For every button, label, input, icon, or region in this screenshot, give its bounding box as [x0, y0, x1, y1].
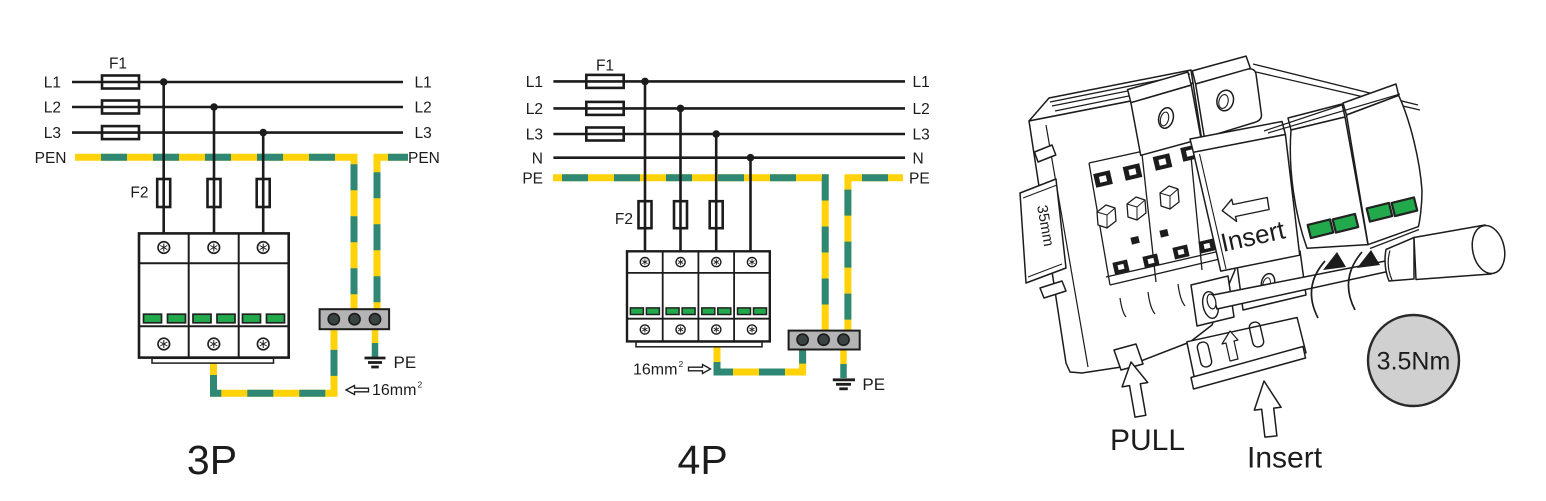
svg-text:L3: L3: [526, 127, 543, 144]
svg-text:16mm: 16mm: [633, 362, 677, 379]
svg-text:L3: L3: [44, 125, 61, 142]
svg-text:L2: L2: [526, 101, 543, 118]
svg-text:3.5Nm: 3.5Nm: [1377, 348, 1451, 376]
svg-text:16mm: 16mm: [372, 382, 416, 399]
svg-text:4P: 4P: [678, 437, 728, 483]
svg-text:L2: L2: [913, 101, 930, 118]
svg-text:2: 2: [418, 380, 423, 390]
svg-text:F1: F1: [596, 57, 614, 74]
svg-text:L1: L1: [415, 75, 432, 92]
svg-text:PEN: PEN: [35, 150, 67, 167]
svg-text:PULL: PULL: [1110, 424, 1185, 457]
svg-text:L2: L2: [415, 100, 432, 117]
svg-text:L1: L1: [526, 74, 543, 91]
svg-text:PE: PE: [862, 375, 885, 394]
svg-text:2: 2: [679, 359, 684, 369]
svg-text:L1: L1: [913, 74, 930, 91]
svg-text:F1: F1: [109, 56, 127, 73]
svg-text:L2: L2: [44, 100, 61, 117]
svg-text:F2: F2: [130, 185, 148, 202]
svg-text:PE: PE: [909, 170, 930, 187]
svg-text:PEN: PEN: [408, 150, 440, 167]
svg-text:F2: F2: [615, 211, 633, 228]
svg-text:L1: L1: [44, 75, 61, 92]
svg-text:PE: PE: [394, 353, 417, 372]
svg-text:N: N: [532, 150, 543, 167]
svg-text:N: N: [913, 150, 924, 167]
svg-text:L3: L3: [415, 125, 432, 142]
svg-text:3P: 3P: [187, 437, 237, 483]
svg-text:Insert: Insert: [1247, 442, 1323, 475]
svg-text:L3: L3: [913, 127, 930, 144]
svg-text:PE: PE: [522, 170, 543, 187]
